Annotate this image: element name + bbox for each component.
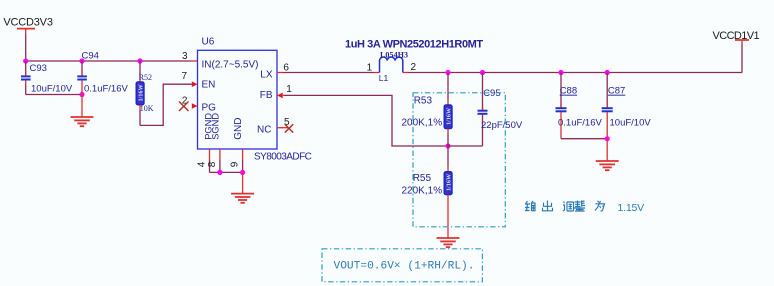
svg-text:PG: PG — [202, 103, 217, 114]
svg-text:IN(2.7~5.5V): IN(2.7~5.5V) — [202, 59, 259, 70]
power flag VCCD3V3 — [3, 16, 52, 35]
IC U6 SY8003ADFC buck regulator — [198, 37, 312, 163]
capacitor C88 — [556, 73, 603, 139]
junction at C94 top — [79, 58, 84, 63]
pin 6 LX wire — [277, 63, 375, 74]
capacitor C95 — [478, 73, 523, 147]
resistor R53 — [402, 73, 453, 147]
ground under chip — [231, 172, 254, 202]
svg-text:6: 6 — [283, 63, 289, 74]
wire FB net — [284, 95, 448, 146]
svg-text:C93: C93 — [30, 63, 47, 74]
dashed feedback divider box — [413, 93, 505, 227]
svg-text:4: 4 — [197, 161, 208, 167]
svg-text:R53: R53 — [414, 96, 433, 107]
svg-text:1.15V: 1.15V — [618, 202, 645, 214]
svg-text:200K,1%: 200K,1% — [402, 118, 443, 129]
wire gnd bus under chip — [210, 171, 243, 173]
wire EN pull-up path — [140, 84, 192, 125]
wire C93 bottom to C94 bottom — [26, 94, 82, 96]
svg-text:1/16W: 1/16W — [138, 83, 145, 101]
capacitor C87 — [602, 73, 652, 139]
svg-text:220K,1%: 220K,1% — [402, 185, 443, 196]
svg-text:SY8003ADFC: SY8003ADFC — [254, 152, 312, 163]
svg-text:10uF/10V: 10uF/10V — [610, 117, 652, 128]
svg-text:0.1uF/16V: 0.1uF/16V — [558, 117, 602, 128]
svg-text:SGND: SGND — [211, 113, 221, 140]
pin 7 stub with arrow — [182, 71, 198, 87]
pin 5 NC no-connect — [277, 117, 293, 133]
junction at R52 top — [137, 58, 142, 63]
svg-text:22pF/50V: 22pF/50V — [481, 120, 523, 131]
svg-text:8: 8 — [207, 161, 218, 167]
svg-text:1/16W: 1/16W — [446, 107, 453, 125]
svg-text:L1: L1 — [379, 73, 389, 83]
wire VCCD3V3 drop — [25, 35, 27, 61]
wire 3V3 rail — [26, 60, 191, 62]
chip bottom pins 4 8 9 — [197, 149, 243, 172]
junction at C95 top — [480, 70, 485, 75]
pin 2 PG no-connect — [179, 95, 198, 111]
capacitor C94 — [77, 51, 128, 95]
svg-text:10uF/10V: 10uF/10V — [31, 84, 73, 95]
svg-text:VOUT=0.6V× (1+RH/RL).: VOUT=0.6V× (1+RH/RL). — [334, 260, 475, 272]
svg-text:C87: C87 — [608, 86, 625, 97]
svg-text:NC: NC — [257, 125, 271, 136]
note: output set to 1.15V (Chinese) — [525, 201, 605, 212]
svg-text:VCCD1V1: VCCD1V1 — [713, 30, 760, 42]
ground under R55 — [437, 195, 460, 248]
svg-text:2: 2 — [411, 62, 417, 73]
wire LX output rail — [408, 72, 742, 74]
svg-text:1uH 3A WPN252012H1R0MT: 1uH 3A WPN252012H1R0MT — [345, 39, 483, 51]
svg-text:C94: C94 — [82, 51, 99, 62]
svg-text:L054H3: L054H3 — [380, 50, 408, 59]
svg-text:3: 3 — [182, 51, 188, 62]
svg-text:R52: R52 — [139, 73, 152, 82]
svg-text:VCCD3V3: VCCD3V3 — [3, 16, 52, 28]
svg-text:7: 7 — [182, 71, 188, 82]
wire C88-C87 bottom — [561, 138, 607, 140]
junction at C87 top — [605, 70, 610, 75]
svg-text:C88: C88 — [560, 86, 577, 97]
svg-text:GND: GND — [233, 118, 244, 140]
junction pin8 bus — [217, 170, 222, 175]
svg-text:0.1uF/16V: 0.1uF/16V — [84, 84, 128, 95]
svg-text:1: 1 — [286, 84, 292, 95]
svg-text:EN: EN — [202, 79, 216, 90]
resistor R52 — [136, 61, 154, 125]
resistor R55 — [402, 146, 453, 196]
junction at R53 top — [445, 70, 450, 75]
ground under C94 — [71, 95, 94, 127]
svg-text:U6: U6 — [202, 37, 215, 48]
junction at FB divider — [445, 143, 450, 148]
svg-text:R55: R55 — [413, 173, 432, 184]
svg-text:9: 9 — [230, 161, 241, 167]
junction pin9 bus — [240, 170, 245, 175]
svg-text:LX: LX — [260, 70, 273, 81]
pin 1 FB wire with arrow — [277, 84, 292, 98]
junction at C88 top — [558, 70, 563, 75]
svg-text:1/16W: 1/16W — [446, 173, 453, 191]
junction at power drop — [23, 58, 28, 63]
capacitor C93 — [21, 61, 73, 95]
svg-text:FB: FB — [260, 90, 273, 101]
power flag VCCD1V1 — [713, 30, 760, 73]
ground under C87 — [596, 139, 619, 171]
junction at C87 bottom — [605, 136, 610, 141]
pin 3 stub — [191, 60, 198, 62]
junction at C94 bottom — [79, 92, 84, 97]
wire C95 bottom — [448, 145, 483, 147]
svg-text:10K: 10K — [140, 104, 154, 113]
inductor L1 — [345, 39, 483, 83]
dashed formula box — [322, 249, 482, 282]
svg-text:1: 1 — [367, 63, 373, 74]
